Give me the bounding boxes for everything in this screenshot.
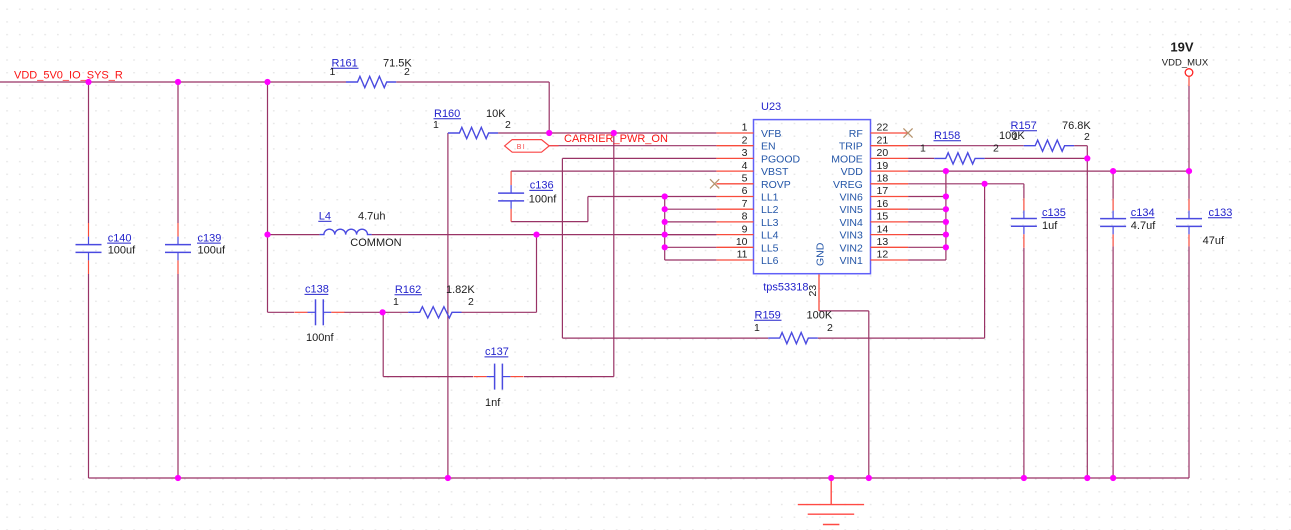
- resistor R159: [768, 333, 818, 344]
- svg-text:VDD_MUX: VDD_MUX: [1162, 57, 1209, 68]
- svg-text:VDD: VDD: [841, 166, 864, 178]
- svg-text:c139: c139: [198, 232, 222, 244]
- pin 13 VIN2 stub: [871, 246, 909, 248]
- wire c136 bottom jog horizontal: [511, 221, 588, 223]
- wire COMMON row L4 to LL bus: [372, 234, 717, 236]
- svg-text:tps53318: tps53318: [763, 281, 808, 293]
- svg-text:8: 8: [742, 211, 748, 223]
- svg-text:VBST: VBST: [761, 166, 789, 178]
- wire VIN bus vertical from VDD row to VIN1: [945, 171, 947, 260]
- ground symbol: [798, 478, 864, 525]
- wire c136 jog up to LL1 row: [587, 197, 589, 222]
- svg-text:LL2: LL2: [761, 204, 779, 216]
- junction dot c138/R162/c137 node: [380, 309, 386, 315]
- pin 14 VIN3 stub: [871, 234, 909, 236]
- svg-text:100K: 100K: [999, 130, 1025, 142]
- svg-text:c135: c135: [1042, 207, 1066, 219]
- wire LL6 row: [665, 259, 717, 261]
- svg-text:20: 20: [877, 147, 889, 159]
- capacitor C136 vertical: [510, 171, 512, 185]
- svg-text:14: 14: [877, 223, 889, 235]
- resistor R162: [408, 307, 461, 318]
- svg-text:1uf: 1uf: [1042, 220, 1058, 232]
- svg-text:U23: U23: [761, 101, 781, 113]
- wire R162 output to corner: [462, 311, 537, 313]
- wire VIN6 row: [908, 196, 946, 198]
- pin 1 VFB stub: [716, 132, 753, 134]
- svg-text:VIN4: VIN4: [839, 217, 863, 229]
- svg-text:22: 22: [877, 122, 889, 134]
- capacitor C135: [1023, 198, 1025, 210]
- svg-text:VREG: VREG: [833, 179, 863, 191]
- wire R157 corner down joining R158 node then ground bus: [1086, 146, 1088, 478]
- svg-text:10: 10: [736, 236, 748, 248]
- pin 9 LL4 stub: [716, 234, 753, 236]
- pin 6 LL1 stub: [716, 196, 753, 198]
- junction dot VREG row: [982, 181, 988, 187]
- no-connect X on pin 5 ROVP: [710, 179, 719, 188]
- pin 23 GND stub: [818, 274, 820, 311]
- svg-text:100nf: 100nf: [529, 193, 557, 205]
- svg-text:LL4: LL4: [761, 230, 779, 242]
- svg-text:VIN2: VIN2: [839, 242, 863, 254]
- svg-text:4.7uh: 4.7uh: [358, 211, 386, 223]
- wire c138 row corner to cap: [268, 311, 295, 313]
- wire R161 corner down to VFB row: [548, 82, 550, 133]
- wire c139 column upper: [177, 82, 179, 223]
- power port 19V VDD_MUX circle: [1185, 69, 1193, 77]
- pin 8 LL3 stub: [716, 221, 753, 223]
- pin 12 VIN1 stub: [871, 259, 909, 261]
- wire ground bus bottom: [89, 477, 1190, 479]
- pin 10 LL5 stub: [716, 246, 753, 248]
- svg-text:19: 19: [877, 160, 889, 172]
- wire c138 to R162 junction: [344, 311, 383, 313]
- wire LL4 row right segment: [665, 234, 717, 236]
- svg-text:3: 3: [742, 147, 748, 159]
- svg-text:15: 15: [877, 211, 889, 223]
- no-connect X on pin 22 RF: [903, 128, 912, 137]
- svg-text:1: 1: [754, 322, 760, 334]
- svg-text:1nf: 1nf: [485, 397, 501, 409]
- pin 5 ROVP stub: [716, 183, 753, 185]
- junction dots COMMON row: [264, 232, 270, 238]
- svg-text:1: 1: [920, 143, 926, 155]
- svg-text:c140: c140: [108, 232, 132, 244]
- wire VFB node down to c137 row: [613, 133, 615, 377]
- capacitor C133: [1188, 199, 1190, 211]
- wire VDD_MUX column from port to VDD row: [1188, 86, 1190, 171]
- pin 3 PGOOD stub: [716, 157, 753, 159]
- svg-text:100nf: 100nf: [306, 332, 334, 344]
- wire VBST row from c136 top to pin 4: [511, 170, 716, 172]
- svg-text:VFB: VFB: [761, 128, 781, 140]
- svg-text:1: 1: [393, 296, 399, 308]
- svg-text:2: 2: [404, 66, 410, 78]
- wire c137 row left segment: [383, 376, 473, 378]
- svg-text:4: 4: [742, 160, 748, 172]
- svg-text:VIN1: VIN1: [839, 255, 863, 267]
- svg-text:LL1: LL1: [761, 192, 779, 204]
- pin 17 VIN6 stub: [871, 196, 909, 198]
- BI port red lead: [549, 145, 558, 147]
- wire R159 row left segment: [562, 337, 768, 339]
- svg-text:9: 9: [742, 223, 748, 235]
- svg-text:ROVP: ROVP: [761, 179, 791, 191]
- pin 22 RF stub: [871, 132, 909, 134]
- svg-text:MODE: MODE: [831, 153, 863, 165]
- wire MODE row R158 output to junction: [985, 157, 1088, 159]
- svg-text:1: 1: [330, 66, 336, 78]
- wire c139 column lower to bus: [177, 274, 179, 478]
- svg-text:2: 2: [827, 322, 833, 334]
- svg-text:6: 6: [742, 185, 748, 197]
- svg-text:EN: EN: [761, 141, 776, 153]
- svg-text:COMMON: COMMON: [350, 237, 401, 249]
- resistor R161: [346, 76, 396, 87]
- wire c133 column below cap to ground bus corner: [1188, 246, 1190, 478]
- svg-text:GND: GND: [815, 242, 827, 266]
- svg-text:2: 2: [742, 134, 748, 146]
- wire TRIP row to R157: [908, 145, 1024, 147]
- capacitor C137 horizontal: [474, 376, 487, 378]
- wire LL bus vertical: [664, 197, 666, 261]
- wire VDD row pin 19 to VDD_MUX column: [908, 170, 1189, 172]
- wire R157 output to corner: [1074, 145, 1087, 147]
- svg-text:21: 21: [877, 134, 889, 146]
- wire VREG row pin 18: [908, 183, 1024, 185]
- svg-text:VDD_5V0_IO_SYS_R: VDD_5V0_IO_SYS_R: [14, 69, 123, 81]
- inductor L4: [320, 229, 372, 234]
- wire c140 column upper: [88, 82, 90, 223]
- port BI hexagon: [505, 140, 550, 153]
- svg-text:2: 2: [993, 143, 999, 155]
- wire LL1 row: [588, 196, 717, 198]
- wire c137 corner up to c138/R162 junction: [382, 312, 384, 376]
- wire VIN4 row: [908, 221, 946, 223]
- junction dots ground bus: [175, 475, 181, 481]
- junction dots top bus: [85, 79, 91, 85]
- svg-text:10K: 10K: [486, 108, 506, 120]
- capacitor C139: [177, 223, 179, 237]
- wire EN row from BI port to pin 2: [549, 145, 716, 147]
- svg-text:1: 1: [742, 122, 748, 134]
- svg-text:VIN3: VIN3: [839, 230, 863, 242]
- junction dots LL bus: [662, 193, 668, 199]
- junction dots VIN bus: [943, 193, 949, 199]
- capacitor C134: [1112, 199, 1114, 211]
- wire R161 output to corner: [396, 81, 549, 83]
- wire MODE row stub to R158: [908, 157, 934, 159]
- wire R160 pin1 corner down to ground bus: [447, 133, 449, 478]
- wire VIN5 row: [908, 208, 946, 210]
- junction dots VDD row: [943, 168, 949, 174]
- wire c134 column below cap to ground bus: [1112, 246, 1114, 478]
- pin 18 VREG stub: [871, 183, 909, 185]
- junction dots VFB row: [546, 130, 552, 136]
- wire VDD_MUX column VDD row to c133: [1188, 171, 1190, 199]
- wire c137 row right segment: [524, 376, 614, 378]
- svg-text:RF: RF: [849, 128, 863, 140]
- pin 20 MODE stub: [871, 157, 909, 159]
- wire LL3 row: [665, 221, 717, 223]
- pin 15 VIN4 stub: [871, 221, 909, 223]
- wire R162 corner up to COMMON row: [536, 235, 538, 313]
- wire VIN3 row: [908, 234, 946, 236]
- junction dot MODE/R157 node: [1084, 155, 1090, 161]
- svg-text:BI: BI: [517, 144, 526, 151]
- svg-text:VIN5: VIN5: [839, 204, 863, 216]
- wire R159 output to corner: [818, 337, 985, 339]
- wire PGOOD row pin 3: [562, 157, 716, 159]
- wire GND column down to ground bus: [868, 311, 870, 478]
- op-amp U1 replaced: IC U23 tps53318 body: [754, 120, 871, 274]
- wire VIN2 row: [908, 246, 946, 248]
- pin 21 TRIP stub: [871, 145, 909, 147]
- wire VIN1 row: [908, 259, 946, 261]
- svg-text:TRIP: TRIP: [839, 141, 863, 153]
- pin 4 VBST stub: [716, 170, 753, 172]
- svg-text:PGOOD: PGOOD: [761, 153, 801, 165]
- capacitor C140: [88, 223, 90, 237]
- resistor R158: [934, 153, 984, 164]
- svg-text:2: 2: [505, 119, 511, 131]
- svg-text:11: 11: [737, 249, 748, 261]
- svg-text:LL5: LL5: [761, 242, 779, 254]
- svg-text:13: 13: [877, 236, 889, 248]
- svg-text:100uf: 100uf: [198, 245, 226, 257]
- pin 16 VIN5 stub: [871, 208, 909, 210]
- resistor R157: [1024, 140, 1074, 151]
- svg-text:23: 23: [807, 285, 819, 297]
- svg-text:1: 1: [433, 119, 439, 131]
- wire c135 column below cap to ground bus: [1023, 248, 1025, 478]
- svg-text:VIN6: VIN6: [839, 192, 863, 204]
- capacitor C138 horizontal: [294, 311, 307, 313]
- wire COMMON row left segment: [268, 234, 320, 236]
- svg-text:19V: 19V: [1170, 40, 1193, 55]
- wire GND pin jog horizontal: [819, 310, 869, 312]
- wire R162 pin1 lead wire: [383, 311, 409, 313]
- wire c134 column from VDD row: [1112, 171, 1114, 199]
- wire PGOOD corner down to R159 row: [561, 158, 563, 338]
- resistor R160: [448, 127, 498, 138]
- svg-text:2: 2: [468, 296, 474, 308]
- wire R159 corner up to VREG junction: [984, 184, 986, 338]
- pin 7 LL2 stub: [716, 208, 753, 210]
- svg-text:4.7uf: 4.7uf: [1131, 220, 1156, 232]
- svg-text:47uf: 47uf: [1203, 235, 1225, 247]
- wire LL5 row: [665, 246, 717, 248]
- svg-text:1.82K: 1.82K: [446, 284, 475, 296]
- svg-text:LL3: LL3: [761, 217, 779, 229]
- svg-text:17: 17: [877, 185, 889, 197]
- pin 11 LL6 stub: [716, 259, 753, 261]
- wire VDD_5V0_IO_SYS_R horizontal bus y=82: [0, 81, 346, 83]
- wire R160 output to VFB pin: [498, 132, 716, 134]
- svg-text:100K: 100K: [807, 310, 833, 322]
- svg-text:18: 18: [877, 173, 889, 185]
- wire VREG corner down to c135: [1023, 184, 1025, 199]
- wire LL2 row: [665, 208, 717, 210]
- wire c140 column lower to bus: [88, 274, 90, 478]
- svg-text:16: 16: [877, 198, 889, 210]
- wire left column x=267.5 from top bus to c138 row: [267, 82, 269, 312]
- svg-text:LL6: LL6: [761, 255, 779, 267]
- svg-text:2: 2: [1084, 131, 1090, 143]
- svg-text:12: 12: [877, 249, 889, 261]
- svg-text:100uf: 100uf: [108, 245, 136, 257]
- svg-text:7: 7: [742, 198, 748, 210]
- pin 19 VDD stub: [871, 170, 909, 172]
- pin 2 EN stub: [716, 145, 753, 147]
- svg-text:5: 5: [742, 173, 748, 185]
